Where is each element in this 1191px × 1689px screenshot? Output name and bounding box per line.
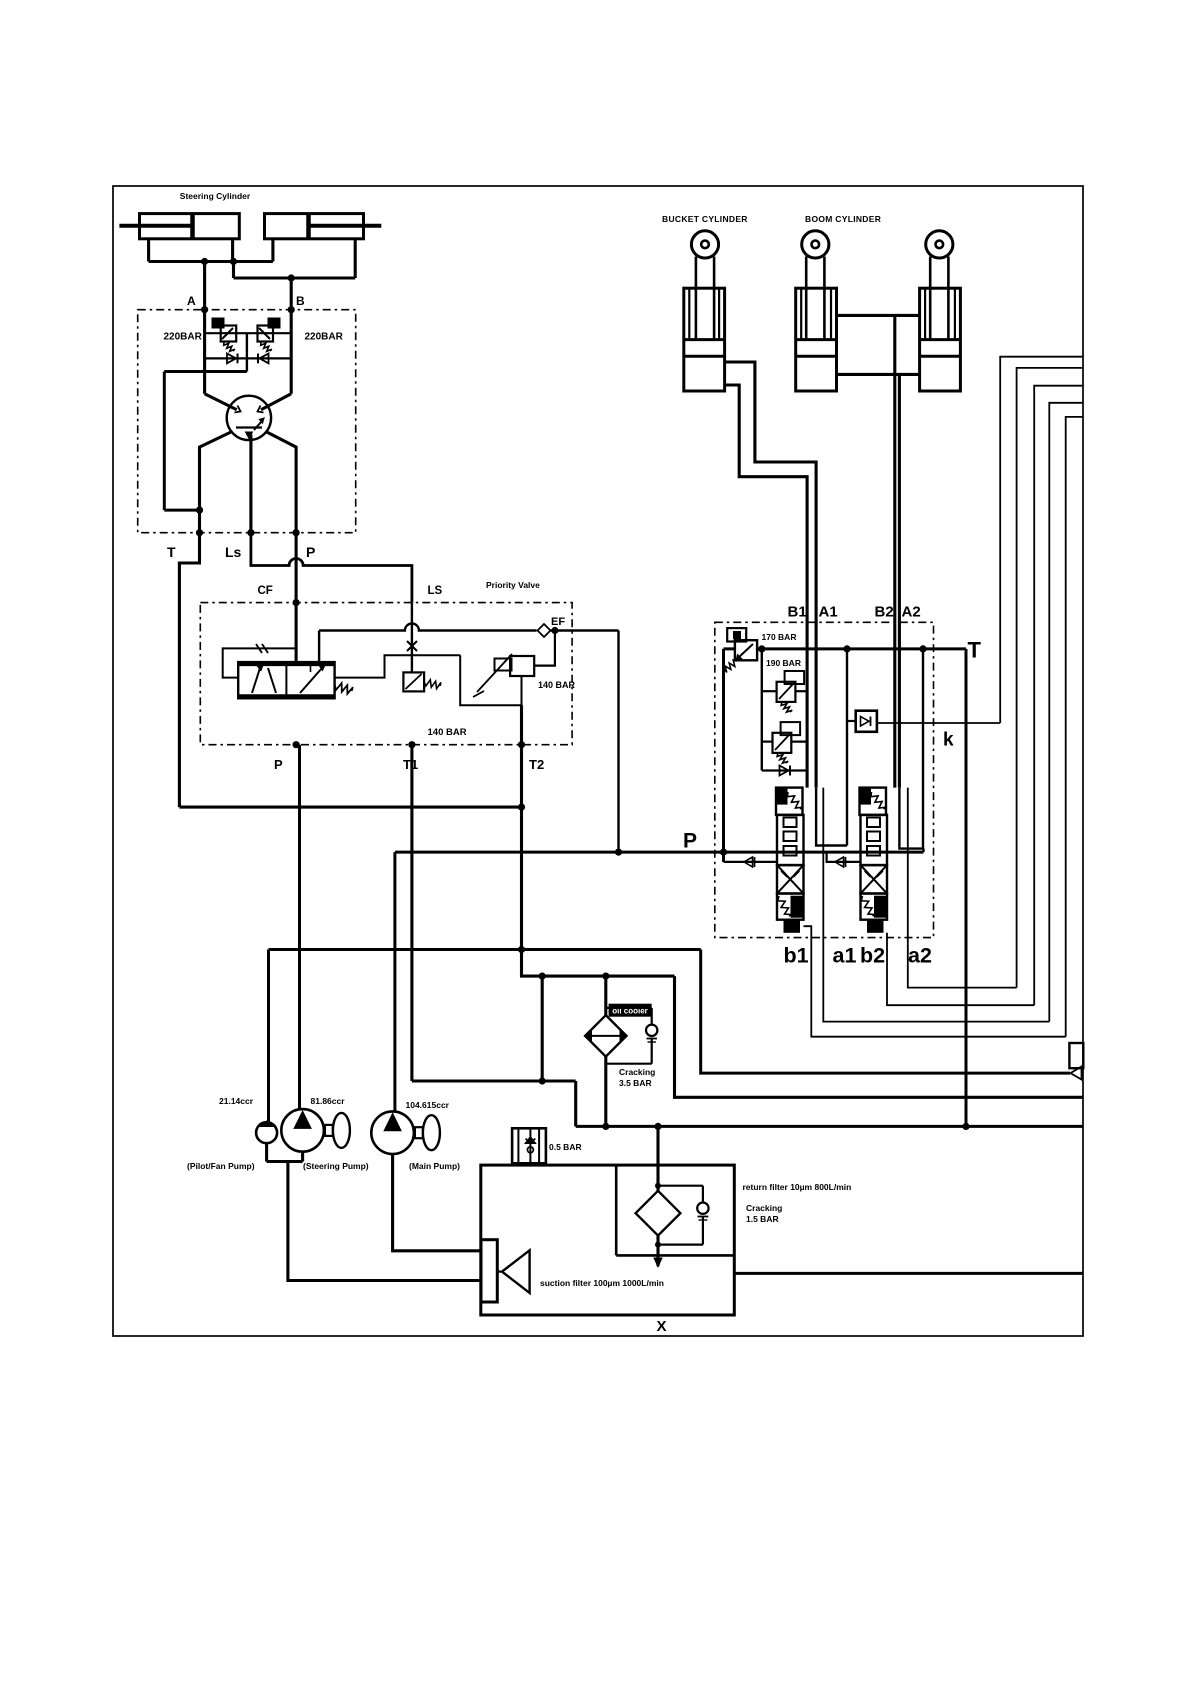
wire T steering + T2 header bbox=[179, 806, 521, 809]
svg-text:A: A bbox=[187, 294, 196, 308]
junction tank elbow bbox=[196, 507, 203, 514]
svg-text:T2: T2 bbox=[529, 757, 544, 772]
cylinder body bbox=[796, 288, 837, 391]
cooler return wire bbox=[675, 976, 1084, 1097]
spool cross box bbox=[777, 865, 804, 893]
wire right cyl right port bbox=[354, 239, 357, 278]
border frame bbox=[113, 186, 1083, 1336]
check valve row wire bbox=[205, 357, 292, 359]
steering orbital rotor circle bbox=[227, 396, 271, 440]
spool compensator box bbox=[860, 788, 887, 815]
P rail end riser bbox=[922, 849, 924, 853]
wire LS inside bbox=[411, 603, 413, 673]
priority spool body bbox=[238, 662, 334, 698]
svg-text:21.14ccr: 21.14ccr bbox=[219, 1096, 254, 1106]
svg-text:104.615ccr: 104.615ccr bbox=[406, 1100, 450, 1110]
wire steering pump riser bbox=[298, 745, 301, 1109]
tank box bbox=[481, 1165, 735, 1315]
wire P down to priority CF bbox=[295, 533, 298, 603]
cylinder inner walls bbox=[800, 288, 802, 339]
svg-text:A2: A2 bbox=[902, 604, 921, 621]
svg-text:suction filter 100µm 1000L/min: suction filter 100µm 1000L/min bbox=[540, 1278, 664, 1288]
svg-text:190 BAR: 190 BAR bbox=[766, 658, 801, 668]
filter bypass wire bbox=[658, 1185, 703, 1187]
section1 feed wire bbox=[724, 861, 778, 863]
svg-text:a2: a2 bbox=[908, 944, 932, 968]
svg-text:Cracking: Cracking bbox=[619, 1067, 655, 1077]
svg-text:P: P bbox=[306, 544, 315, 560]
junction P rail EF bbox=[615, 849, 622, 856]
wire B to rotor bbox=[261, 394, 291, 410]
priority valve dash-dot box bbox=[200, 603, 572, 745]
suction strainer bbox=[481, 1240, 497, 1302]
wire cylinder header B bbox=[234, 276, 356, 279]
wire T1 header bbox=[412, 1079, 576, 1082]
relief valve right 220BAR bbox=[258, 326, 274, 342]
steering cylinder left piston bbox=[190, 215, 195, 238]
junction return filter bbox=[654, 1123, 661, 1130]
filter bypass bottom wire bbox=[658, 1243, 703, 1245]
wire right cyl left port bbox=[271, 239, 274, 262]
main relief 170BAR bbox=[735, 640, 757, 660]
wire T jog bbox=[179, 533, 199, 807]
wire fan supply header bbox=[269, 948, 701, 951]
cylinder rod bbox=[695, 257, 698, 340]
svg-text:B: B bbox=[296, 294, 305, 308]
oil cooler diamond bbox=[585, 1015, 626, 1056]
cylinder rod bbox=[805, 257, 808, 340]
wire boom piston-side interconnect bbox=[837, 373, 920, 376]
oil cooler arrows bbox=[589, 1035, 622, 1037]
pilot loop line 4 bbox=[1049, 403, 1083, 1022]
pump triangle bbox=[384, 1113, 401, 1130]
spool spring box bbox=[777, 894, 804, 920]
wire EF to exit bbox=[551, 629, 619, 631]
svg-text:a1: a1 bbox=[833, 944, 857, 968]
EF output stub bbox=[318, 631, 320, 663]
svg-text:BUCKET CYLINDER: BUCKET CYLINDER bbox=[662, 214, 748, 224]
wire relief to tank header bbox=[164, 370, 247, 373]
cylinder piston bbox=[920, 338, 961, 341]
svg-text:X: X bbox=[656, 1318, 666, 1335]
pilot wire a1 bbox=[823, 788, 1049, 1022]
junction T2 header bbox=[518, 804, 525, 811]
EF wire with hop over LS bbox=[319, 624, 536, 631]
svg-text:3.5 BAR: 3.5 BAR bbox=[619, 1078, 652, 1088]
pilot wire b1 bbox=[804, 926, 1066, 1036]
wire A to rotor bbox=[205, 394, 237, 410]
junction return cooler bbox=[602, 1123, 609, 1130]
cooler bypass wire top bbox=[606, 1007, 652, 1009]
pump shaft bbox=[325, 1125, 333, 1136]
wire main pump riser bbox=[393, 852, 396, 1111]
wire fan line to border bbox=[701, 950, 1070, 1074]
EF drop wire bbox=[617, 631, 619, 853]
junction port P priority bbox=[293, 741, 300, 748]
priority pilot left wire bbox=[223, 648, 296, 677]
spool main box bbox=[861, 815, 888, 865]
EF check valve diamond bbox=[538, 624, 551, 637]
cylinder rod bbox=[929, 257, 932, 340]
svg-text:EF: EF bbox=[551, 616, 565, 628]
spool end stub bbox=[867, 920, 884, 933]
pilot fan pump bbox=[256, 1122, 277, 1143]
junction cooler header 1 bbox=[539, 973, 546, 980]
wire pump suction header bbox=[265, 1143, 268, 1161]
relief column wire bbox=[761, 649, 763, 771]
svg-text:Priority Valve: Priority Valve bbox=[486, 580, 540, 590]
cylinder piston bbox=[796, 338, 837, 341]
spool cross box bbox=[861, 865, 888, 893]
junction dot A header bbox=[201, 258, 208, 265]
T rail wire bbox=[724, 647, 967, 650]
return filter diamond bbox=[636, 1191, 681, 1236]
pump shaft bbox=[415, 1127, 423, 1138]
svg-text:T: T bbox=[167, 544, 176, 560]
wire T1 run down bbox=[410, 745, 413, 1081]
svg-text:(Steering Pump): (Steering Pump) bbox=[303, 1161, 369, 1171]
wire suction drop bbox=[288, 1162, 481, 1281]
pump circle bbox=[281, 1109, 324, 1152]
spool compensator box bbox=[776, 788, 803, 815]
port relief lower bbox=[773, 733, 792, 753]
svg-text:LS: LS bbox=[428, 585, 443, 597]
filter bypass check valve bbox=[702, 1186, 704, 1203]
anti-cavitation check wire bbox=[762, 769, 807, 771]
svg-text:1.5 BAR: 1.5 BAR bbox=[746, 1214, 779, 1224]
rotor chord bbox=[236, 426, 262, 428]
cylinder eye circle bbox=[926, 231, 953, 258]
priority spool left arrows bbox=[252, 668, 260, 693]
wire A2 drop bbox=[898, 374, 901, 787]
section1 bridge wire bbox=[816, 788, 847, 846]
oil cooler line bbox=[604, 976, 607, 1126]
wire pilot pump riser bbox=[267, 950, 270, 1123]
junction T rail 2 bbox=[843, 645, 850, 652]
wire drop to T1 header bbox=[541, 976, 544, 1081]
wire cross drop bbox=[232, 262, 235, 279]
cylinder eye circle bbox=[802, 231, 829, 258]
wire node B vertical bbox=[290, 278, 293, 310]
spool spring box bbox=[861, 894, 888, 920]
section2 feed check bbox=[835, 857, 844, 867]
cylinder body bbox=[684, 288, 725, 391]
relief valve left 220BAR bbox=[221, 326, 237, 342]
k wire to pilot line bbox=[877, 722, 1000, 724]
anti-cavitation check valve bbox=[780, 766, 789, 776]
junction dot B header bbox=[288, 274, 295, 281]
wire bucket rod-side port bbox=[725, 362, 817, 788]
svg-text:P: P bbox=[274, 757, 283, 772]
pilot orifice mark bbox=[256, 644, 262, 653]
wire main pump suction bbox=[393, 1154, 481, 1251]
steering cylinder right body bbox=[265, 214, 364, 239]
wire rotor to P bbox=[266, 432, 296, 533]
pilot loop line 1 bbox=[1000, 357, 1083, 723]
cylinder inner walls bbox=[688, 288, 690, 339]
tank outlet wire bbox=[734, 1272, 1083, 1275]
svg-text:(Main Pump): (Main Pump) bbox=[409, 1161, 460, 1171]
junction port T2 bbox=[518, 741, 525, 748]
junction port Ls bbox=[247, 529, 254, 536]
wire relief center drop bbox=[246, 333, 248, 371]
pilot wire a2 bbox=[908, 788, 1017, 988]
svg-text:(Pilot/Fan Pump): (Pilot/Fan Pump) bbox=[187, 1161, 255, 1171]
cooler bypass check valve bbox=[651, 1008, 653, 1025]
svg-text:Steering Cylinder: Steering Cylinder bbox=[180, 191, 251, 201]
spool main box bbox=[777, 815, 804, 865]
valve block dash-dot box bbox=[715, 622, 934, 937]
relief sensing loop bbox=[460, 655, 521, 705]
wire relief to EF bbox=[534, 631, 555, 666]
pump triangle bbox=[294, 1111, 311, 1128]
wire node A vertical bbox=[203, 262, 206, 310]
svg-text:b1: b1 bbox=[784, 944, 809, 968]
pilot loop line 5 bbox=[1066, 417, 1083, 1037]
svg-text:CF: CF bbox=[258, 585, 273, 597]
pilot loop line 3 bbox=[1034, 386, 1083, 1006]
junction T rail 3 bbox=[919, 645, 926, 652]
wire tank header drop bbox=[163, 372, 166, 511]
svg-text:T: T bbox=[968, 638, 982, 663]
cylinder eye circle bbox=[691, 231, 718, 258]
cylinder body bbox=[920, 288, 961, 391]
wire T2 inside box bbox=[520, 705, 523, 745]
main return line wire bbox=[576, 1125, 1083, 1128]
svg-text:Cracking: Cracking bbox=[746, 1203, 782, 1213]
svg-text:k: k bbox=[943, 730, 954, 751]
wire B inside box bbox=[290, 310, 293, 394]
junction T rail 1 bbox=[758, 645, 765, 652]
wire relief2 stub bbox=[762, 740, 773, 742]
steering cylinder left rod bbox=[119, 224, 191, 228]
junction port T bbox=[196, 529, 203, 536]
section2 feed wire bbox=[827, 852, 861, 862]
junction return T bbox=[962, 1123, 969, 1130]
svg-text:220BAR: 220BAR bbox=[305, 332, 344, 343]
rotor arrow right bbox=[258, 406, 264, 413]
svg-text:return filter 10µm 800L/min: return filter 10µm 800L/min bbox=[743, 1182, 852, 1192]
priority spool right arrow bbox=[300, 668, 322, 693]
svg-text:B1: B1 bbox=[788, 604, 807, 621]
cooler bypass wire bottom bbox=[606, 1063, 652, 1065]
svg-text:B2: B2 bbox=[875, 604, 894, 621]
wire T1 header drop bbox=[574, 1081, 577, 1126]
wire Ls run with hop over P bbox=[251, 533, 412, 603]
suction strainer triangle bbox=[502, 1250, 530, 1293]
junction port P bbox=[293, 529, 300, 536]
spool end stub bbox=[784, 920, 801, 933]
LS relief valve 140BAR bbox=[403, 672, 424, 691]
fan check box at border bbox=[1069, 1043, 1083, 1068]
rotor arrow center bbox=[254, 421, 262, 430]
junction fan header T2 bbox=[518, 946, 525, 953]
junction T1 header bbox=[539, 1077, 546, 1084]
pilot loop line 2 bbox=[1017, 368, 1083, 988]
pump circle bbox=[371, 1111, 414, 1154]
svg-text:170 BAR: 170 BAR bbox=[762, 632, 797, 642]
wire return filter drop bbox=[656, 1126, 659, 1190]
wire rotor to T bbox=[200, 432, 232, 533]
section1 side rail wire bbox=[846, 649, 848, 846]
junction P rail sec1 bbox=[720, 849, 727, 856]
svg-text:P: P bbox=[683, 830, 697, 853]
wire A inside box bbox=[203, 310, 206, 394]
wire rail to k box bbox=[847, 720, 856, 722]
junction dot B at box bbox=[288, 306, 295, 313]
k check valve box bbox=[856, 711, 877, 732]
wire bucket piston-side port bbox=[725, 385, 808, 788]
rotor arrow left bbox=[235, 406, 241, 413]
junction CF at box top bbox=[293, 599, 300, 606]
pilot wire b2 bbox=[887, 933, 1034, 1005]
junction port T1 bbox=[408, 741, 415, 748]
svg-text:140 BAR: 140 BAR bbox=[538, 680, 576, 690]
steering unit dash-dot box bbox=[138, 310, 356, 533]
svg-text:b2: b2 bbox=[860, 944, 885, 968]
junction dot cross drop bbox=[230, 258, 237, 265]
wire cylinder header A bbox=[149, 260, 273, 263]
svg-text:A1: A1 bbox=[819, 604, 838, 621]
priority spool spring bbox=[335, 683, 353, 694]
rotor bottom mark bbox=[246, 432, 253, 439]
svg-text:0.5 BAR: 0.5 BAR bbox=[549, 1142, 582, 1152]
P rail wire bbox=[395, 851, 924, 854]
wire T2 drop bbox=[520, 745, 523, 950]
tank inner compartment bbox=[615, 1165, 618, 1255]
svg-text:81.86ccr: 81.86ccr bbox=[311, 1096, 346, 1106]
steering cylinder right piston bbox=[306, 215, 311, 238]
port relief 190BAR bbox=[777, 682, 796, 702]
junction EF branch bbox=[551, 627, 558, 634]
wire B2 drop bbox=[893, 315, 896, 787]
junction dot A at box bbox=[201, 306, 208, 313]
svg-text:Ls: Ls bbox=[225, 544, 242, 560]
cylinder inner walls bbox=[924, 288, 926, 339]
wire T2 to cooler header bbox=[522, 950, 675, 977]
svg-text:140 BAR: 140 BAR bbox=[428, 727, 467, 738]
left rail wire bbox=[722, 649, 725, 862]
check valve right bbox=[260, 354, 269, 364]
main relief valve 140BAR bbox=[510, 656, 534, 676]
wire left cyl port A2 bbox=[231, 239, 234, 262]
return filter outlet wire bbox=[656, 1236, 659, 1267]
wire left cyl port A1 bbox=[147, 239, 150, 262]
junction cooler header 2 bbox=[602, 973, 609, 980]
steering cylinder right rod bbox=[310, 224, 381, 228]
section2 bridge wire bbox=[899, 649, 923, 849]
svg-text:220BAR: 220BAR bbox=[164, 332, 203, 343]
relief bridge wire bbox=[205, 332, 292, 334]
LS plugged port x-mark bbox=[407, 641, 417, 651]
wire tank elbow bbox=[164, 509, 199, 512]
wire rotor to Ls bbox=[249, 435, 252, 533]
priority pilot right wire bbox=[335, 655, 461, 677]
breather 0.5 BAR bbox=[512, 1128, 546, 1163]
wire relief1 stub bbox=[762, 690, 777, 692]
section1 feed check bbox=[744, 857, 753, 867]
steering cylinder left body bbox=[140, 214, 240, 239]
oil cooler label box bbox=[609, 1004, 652, 1017]
wire CF inside bbox=[295, 603, 298, 663]
check valve left bbox=[227, 354, 236, 364]
cylinder piston bbox=[684, 338, 725, 341]
wire boom rod-side interconnect bbox=[837, 314, 920, 317]
svg-text:BOOM CYLINDER: BOOM CYLINDER bbox=[805, 214, 881, 224]
T corner wire bbox=[965, 649, 968, 1127]
